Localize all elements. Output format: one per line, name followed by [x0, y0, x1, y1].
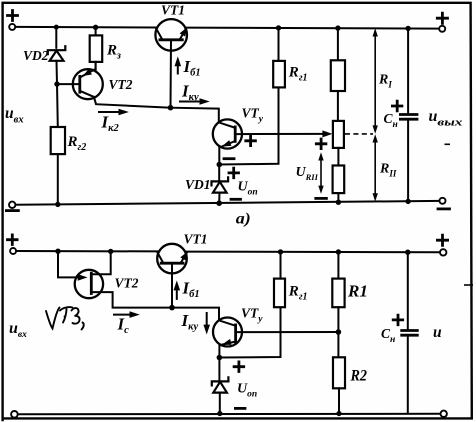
- node VT1b base junction: [169, 305, 175, 311]
- resistor R1: [332, 252, 344, 332]
- ground terminal (b, bottom-left): [11, 411, 18, 418]
- transistor VT2 (pnp): [57, 62, 171, 108]
- svg-text:VD2: VD2: [23, 48, 49, 63]
- dimension arrow R_II: [373, 134, 378, 201]
- svg-text:Uоп: Uоп: [237, 382, 257, 400]
- svg-text:URII: URII: [296, 165, 319, 182]
- dimension arrow R_I: [373, 28, 378, 134]
- zener VD2: [48, 46, 66, 61]
- handwritten VT3: [46, 307, 84, 329]
- wire: bottom rail circuit b: [18, 413, 441, 415]
- node divider bottom: [336, 200, 341, 205]
- node Rg1b top: [278, 249, 283, 254]
- output + terminal (b, right): [437, 235, 447, 255]
- svg-text:Rг1: Rг1: [288, 284, 308, 303]
- svg-text:Iб1: Iб1: [182, 279, 200, 301]
- svg-text:uвых: uвых: [429, 108, 464, 129]
- plus Uop top: [229, 168, 239, 178]
- label I_k2 arrow: [99, 109, 129, 134]
- svg-text:Cн: Cн: [384, 111, 398, 130]
- svg-text:u: u: [433, 324, 442, 341]
- wire emitter node to Rg1b bottom: [219, 307, 280, 357]
- capacitor Cn (b): [402, 252, 418, 413]
- node VTu emitter junction: [217, 162, 223, 168]
- node VTub emitter junction: [217, 355, 223, 361]
- svg-text:R1: R1: [347, 282, 368, 301]
- svg-text:Iк2: Iк2: [101, 113, 120, 135]
- plus Cn: [392, 101, 402, 111]
- divider lower resistor: [333, 148, 345, 202]
- plus U_RII: [316, 139, 326, 149]
- node drain branch top: [108, 249, 113, 254]
- minus Uop2: [235, 407, 245, 410]
- transistor VT1 (b): [157, 244, 188, 308]
- node Rz top: [93, 25, 98, 30]
- svg-text:Rг1: Rг1: [288, 65, 308, 84]
- speck tick on right frame: [464, 284, 473, 286]
- dashed wiper line: [345, 133, 373, 135]
- wire VT1 base to VTu collector: [171, 108, 219, 123]
- output + terminal (top-right): [437, 13, 447, 32]
- svg-text:Iб1: Iб1: [183, 57, 201, 79]
- minus VTu emitter: [224, 157, 234, 160]
- svg-text:Uоп: Uоп: [238, 180, 258, 198]
- plus Cn (b): [393, 315, 403, 325]
- minus Uop bottom: [231, 198, 241, 201]
- label I_b1 (b) arrow: [174, 279, 200, 301]
- input + terminal 2 (bottom-left): [8, 235, 18, 254]
- wire VD2 top lead: [55, 27, 57, 48]
- svg-text:VT1: VT1: [161, 2, 185, 17]
- svg-text:Rг2: Rг2: [67, 134, 87, 153]
- label I_c arrow: [114, 311, 140, 336]
- svg-text:VT2: VT2: [115, 276, 139, 291]
- wire: ground rail circuit a: [15, 201, 439, 205]
- transistor VTu (b): [213, 318, 338, 358]
- node VT1 base junction: [168, 105, 174, 111]
- node gate branch top: [55, 249, 60, 254]
- label I_ku arrow: [180, 82, 210, 105]
- node VD2 top: [54, 25, 59, 30]
- svg-text:VT2: VT2: [109, 77, 133, 92]
- output - terminal (right, mid): [438, 198, 450, 209]
- node divider mid (b): [336, 329, 342, 335]
- fet VT2: [58, 251, 172, 307]
- ground terminal (bottom-left of circuit a): [6, 202, 18, 211]
- divider upper resistor: [331, 28, 345, 121]
- svg-text:Rз: Rз: [106, 43, 121, 62]
- svg-text:uвх: uвх: [9, 320, 27, 340]
- node Cn top: [405, 26, 410, 31]
- plus VTu base: [246, 136, 256, 146]
- svg-text:Cн: Cн: [381, 326, 395, 345]
- node Cn2 top: [405, 250, 410, 255]
- input + terminal (top-left): [8, 11, 18, 30]
- node Rg1 top: [276, 25, 281, 30]
- speck dash right of u_vyh: [445, 143, 451, 145]
- svg-text:VTу: VTу: [242, 106, 264, 125]
- label I_ku (b) arrow: [181, 311, 211, 335]
- svg-text:RI: RI: [378, 73, 392, 90]
- ground terminal (b, bottom-right): [441, 411, 447, 417]
- wire VD2 bottom lead: [56, 61, 59, 84]
- label I_b1 arrow: [175, 56, 201, 78]
- node VD1 bottom: [216, 200, 222, 206]
- zener VD (b): [212, 358, 229, 414]
- transistor VT1 (npn pass): [155, 19, 187, 108]
- svg-text:RII: RII: [379, 162, 397, 179]
- svg-text:uвх: uвх: [5, 105, 24, 126]
- node Cn bottom: [405, 199, 410, 204]
- wire: top positive rail: [15, 27, 440, 29]
- transistor VTu (pnp, error amp): [213, 119, 326, 164]
- node R1 top: [336, 249, 341, 254]
- svg-text:Iку: Iку: [181, 311, 199, 333]
- plus Uop2: [234, 362, 244, 372]
- node Rg2 bottom: [55, 202, 60, 207]
- resistor Rz: [90, 27, 103, 69]
- node R2 bottom: [336, 411, 341, 416]
- dimension arrow U_RII: [318, 152, 323, 194]
- svg-text:VT1: VT1: [184, 232, 208, 247]
- svg-text:R2: R2: [350, 368, 367, 385]
- zener VD1: [212, 165, 229, 204]
- svg-text:Iку: Iку: [181, 82, 199, 104]
- resistor Rg1: [273, 28, 285, 88]
- svg-text:VD1: VD1: [185, 177, 211, 192]
- node divider top: [335, 25, 340, 30]
- svg-text:VTу: VTу: [241, 306, 263, 325]
- potentiometer: [322, 121, 344, 148]
- wire: top rail circuit b: [16, 251, 440, 252]
- node VT2 base junction: [54, 81, 59, 86]
- svg-text:а): а): [236, 211, 251, 228]
- resistor R2: [333, 332, 345, 414]
- wire VT1b base to VTub collector: [172, 308, 219, 321]
- wire emitter node to Rg1 bottom: [219, 87, 278, 164]
- minus U_RII: [316, 197, 327, 200]
- resistor Rg2: [51, 84, 65, 204]
- capacitor Cn: [400, 28, 417, 201]
- resistor Rg1 (b): [274, 252, 285, 307]
- svg-text:Iс: Iс: [117, 315, 130, 337]
- node VDb bottom: [217, 411, 222, 416]
